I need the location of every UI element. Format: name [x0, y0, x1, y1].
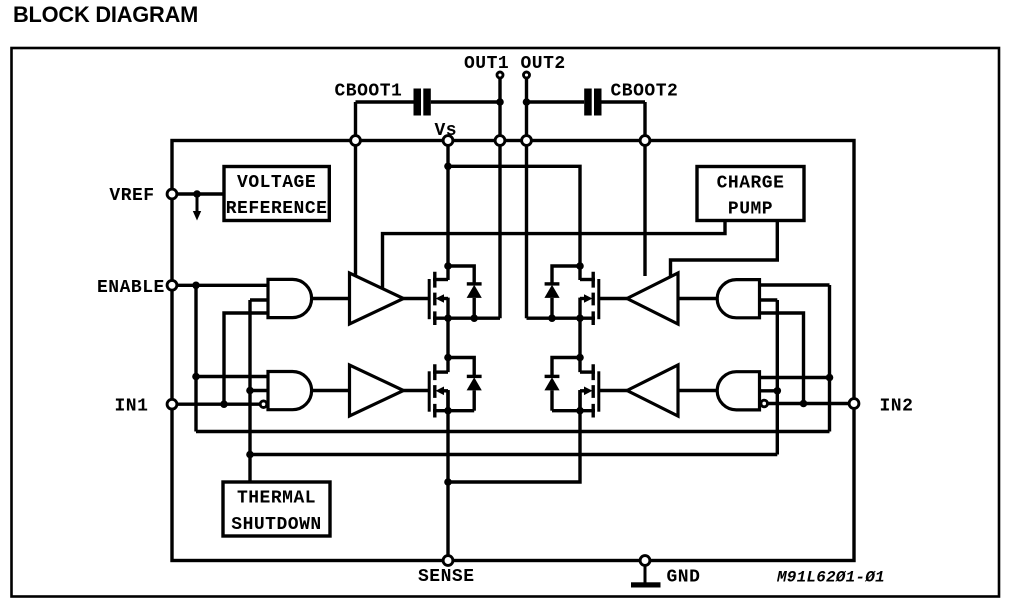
- ground symbol: [631, 560, 661, 588]
- junction AND2R input2: [774, 387, 782, 395]
- svg-text:THERMAL: THERMAL: [237, 489, 316, 509]
- svg-text:SENSE: SENSE: [418, 567, 475, 587]
- wire AND2R input1: [760, 376, 830, 379]
- wire driver to M2 gate: [404, 389, 431, 392]
- buffer driver upper-right: [627, 273, 678, 324]
- transistor M1 upper-left DMOS: [429, 272, 500, 325]
- junction M3 drain: [576, 262, 584, 270]
- wire M4 drain to diode: [552, 358, 580, 376]
- junction M1 source/bulk: [444, 314, 452, 322]
- and-gate U4 lower-right: [717, 372, 759, 410]
- junction AND2R input1: [826, 374, 834, 382]
- wire ENABLE up x=829.5: [828, 285, 831, 432]
- wire driver to M1 gate: [404, 297, 431, 300]
- wire thermal up x=777.3: [776, 300, 779, 455]
- wire AND1R output: [678, 297, 717, 300]
- svg-text:OUT1 OUT2: OUT1 OUT2: [464, 54, 566, 74]
- wire right bridge spine: [448, 318, 580, 482]
- junction IN1 branch: [220, 400, 228, 408]
- svg-text:CHARGE: CHARGE: [717, 174, 785, 194]
- wire CBOOT2 right segment: [602, 100, 646, 103]
- wire VREF input: [172, 192, 224, 195]
- node CBOOT2 on bus: [640, 136, 650, 146]
- capacitor CBOOT2: [584, 89, 601, 116]
- wire thermal cross y=454.5: [250, 453, 777, 456]
- wire Vs drop: [446, 141, 449, 281]
- terminal VREF: [167, 189, 177, 199]
- wire CBOOT2 left segment from OUT2: [527, 100, 585, 103]
- wire ENABLE input: [172, 284, 268, 287]
- wire AND2R output: [678, 389, 717, 392]
- junction D3 anode: [548, 314, 556, 322]
- wire AND1L input2: [250, 298, 268, 301]
- diode D1: [467, 284, 482, 318]
- wire IN1 up x=224 to AND1L input3: [224, 313, 268, 404]
- wire M1 drain to diode: [448, 266, 474, 283]
- wire OUT2 vertical: [525, 78, 528, 319]
- wire IN1 input: [172, 403, 260, 406]
- wire CBOOT1 left segment: [356, 100, 414, 103]
- wire M2 drain to diode: [448, 358, 474, 376]
- wire AND2R input2: [760, 389, 778, 392]
- capacitor CBOOT1: [414, 89, 431, 116]
- terminal IN1: [167, 399, 177, 409]
- terminal ENABLE: [167, 280, 177, 290]
- node Vs on bus: [443, 136, 453, 146]
- buffer driver lower-right: [627, 365, 678, 416]
- wire charge pump to left driver: [383, 220, 726, 288]
- transistor M2 lower-left DMOS: [429, 364, 474, 417]
- and-gate U2 lower-left: [268, 372, 312, 410]
- wire ENABLE cross bus y=431.5: [196, 430, 830, 433]
- svg-text:BLOCK DIAGRAM: BLOCK DIAGRAM: [13, 2, 198, 27]
- junction M2 drain: [444, 354, 452, 362]
- diode D2: [467, 376, 482, 410]
- and-gate U3 upper-right: [717, 280, 759, 318]
- svg-text:VOLTAGE: VOLTAGE: [237, 173, 316, 193]
- junction IN2 branch: [800, 400, 808, 408]
- buffer driver upper-left: [350, 273, 404, 324]
- wire CBOOT1 drop to driver: [354, 102, 357, 276]
- svg-text:ENABLE: ENABLE: [97, 278, 165, 298]
- wire IN2 input: [768, 402, 854, 405]
- junction M4 drain: [576, 354, 584, 362]
- wire AND2L input2: [250, 389, 268, 392]
- wire AND1R input2: [760, 298, 778, 301]
- svg-text:M91L62Ø1-Ø1: M91L62Ø1-Ø1: [776, 569, 885, 587]
- wire driver to M3 gate: [599, 297, 628, 300]
- transistor M4 lower-right DMOS: [552, 364, 599, 417]
- terminal OUT1: [497, 72, 503, 78]
- thermal shutdown box: [223, 482, 330, 536]
- junction M3 source/bulk: [576, 314, 584, 322]
- svg-text:GND: GND: [667, 568, 701, 588]
- inversion bubble AND2L: [260, 401, 267, 408]
- junction sense join: [444, 478, 452, 486]
- svg-text:IN2: IN2: [880, 397, 914, 417]
- voltage reference box: [224, 167, 329, 221]
- junction Vs branch: [444, 163, 452, 171]
- junction thermal cross wire: [246, 451, 254, 459]
- and-gate U1 upper-left: [268, 279, 312, 317]
- svg-text:REFERENCE: REFERENCE: [226, 199, 328, 219]
- diode D3: [544, 284, 559, 318]
- wire AND2L output: [312, 389, 350, 392]
- wire Vs branch to right half-bridge: [448, 166, 580, 280]
- wire thermal net x=250: [248, 300, 251, 482]
- node OUT1 on bus: [495, 136, 505, 146]
- wire charge pump to right driver: [671, 220, 778, 276]
- svg-text:VREF: VREF: [109, 186, 154, 206]
- transistor M3 upper-right DMOS: [527, 272, 599, 325]
- inversion bubble AND2R: [761, 400, 768, 407]
- svg-text:PUMP: PUMP: [728, 200, 773, 220]
- node OUT2 on bus: [522, 136, 532, 146]
- terminal OUT2: [524, 72, 530, 78]
- wire M3 drain to diode: [552, 266, 580, 283]
- junction AND2L input2: [246, 387, 254, 395]
- junction M1 drain: [444, 262, 452, 270]
- junction ENABLE to lower gate: [192, 373, 200, 381]
- wire CBOOT1 right segment to OUT1: [431, 100, 500, 103]
- junction M4 source: [576, 407, 584, 415]
- wire AND2L input1: [196, 375, 268, 378]
- wire driver to M4 gate: [599, 389, 628, 392]
- svg-text:SHUTDOWN: SHUTDOWN: [231, 515, 321, 535]
- junction M2 source: [444, 407, 452, 415]
- junction ENABLE branch: [192, 282, 200, 290]
- junction OUT2/CBOOT2: [523, 98, 531, 106]
- wire left bridge spine: [446, 318, 449, 560]
- diode D4: [544, 376, 559, 410]
- svg-text:Vs: Vs: [435, 121, 458, 141]
- terminal IN2: [849, 399, 859, 409]
- junction VREF arrow: [193, 190, 201, 198]
- svg-text:IN1: IN1: [115, 397, 149, 417]
- wire AND1R input1: [760, 283, 830, 286]
- wire ENABLE down x=196: [194, 285, 197, 431]
- IC boundary rectangle: [172, 141, 854, 561]
- vref down arrow: [193, 194, 201, 221]
- junction D1 anode: [470, 314, 478, 322]
- terminal SENSE: [443, 556, 453, 566]
- wire IN2 up x=803.5 to AND1R input3: [760, 313, 804, 404]
- buffer driver lower-left: [350, 365, 404, 416]
- wire AND1L output: [312, 297, 350, 300]
- wire CBOOT2 drop to driver: [643, 102, 646, 276]
- charge pump box: [697, 167, 804, 221]
- terminal GND: [640, 556, 650, 566]
- svg-text:CBOOT2: CBOOT2: [611, 81, 679, 101]
- junction OUT1/CBOOT1: [496, 98, 504, 106]
- wire OUT1 vertical: [498, 78, 501, 319]
- svg-text:CBOOT1: CBOOT1: [335, 81, 403, 101]
- node CBOOT1 on bus: [351, 136, 361, 146]
